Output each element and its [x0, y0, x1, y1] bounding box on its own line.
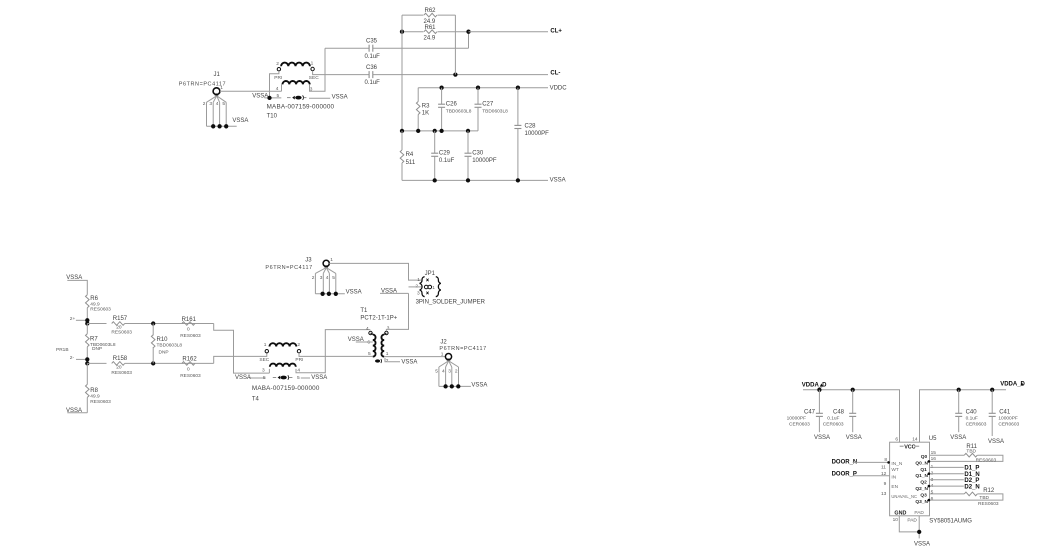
ground VSSA left of T10 — [252, 93, 281, 100]
svg-text:JP1: JP1 — [425, 271, 436, 277]
svg-text:C28: C28 — [525, 124, 537, 130]
svg-text:CER0603: CER0603 — [966, 422, 987, 428]
wire DOOR_P input — [832, 472, 890, 478]
resistor R4 — [400, 131, 416, 181]
wire DOOR_N input — [832, 460, 890, 466]
T4 part label — [252, 385, 320, 403]
net VDDA_D flag left — [802, 382, 827, 388]
svg-text:P6TRN=PC4117: P6TRN=PC4117 — [439, 346, 486, 352]
svg-text:RES0603: RES0603 — [180, 333, 201, 339]
svg-text:4: 4 — [276, 86, 279, 92]
svg-text:D1_P: D1_P — [964, 466, 979, 472]
svg-text:CL-: CL- — [550, 70, 560, 76]
svg-text:4: 4 — [366, 326, 369, 332]
ground VSSA at J1 — [207, 118, 249, 129]
svg-text:DNP: DNP — [159, 349, 169, 355]
svg-text:10000PF: 10000PF — [998, 415, 1018, 421]
port P label — [56, 347, 69, 353]
svg-text:R7: R7 — [90, 337, 98, 343]
svg-text:IN_N: IN_N — [891, 461, 902, 467]
svg-text:C36: C36 — [366, 65, 378, 71]
svg-text:Q0: Q0 — [921, 454, 928, 460]
svg-text:2: 2 — [312, 275, 315, 281]
wire T10 pin4 leg — [281, 84, 283, 91]
svg-text:Q2: Q2 — [920, 480, 927, 486]
ground VSSA left of T4 — [235, 375, 266, 381]
T4 core shield symbol — [273, 375, 293, 379]
net VSSA flag top left — [66, 275, 87, 295]
svg-text:5: 5 — [263, 375, 266, 381]
svg-text:D2_P: D2_P — [964, 478, 979, 484]
wire node A vertical — [401, 15, 403, 131]
wire VDDA rail left — [803, 388, 900, 443]
svg-text:Q2_N: Q2_N — [915, 486, 928, 492]
svg-text:Q0_N: Q0_N — [915, 461, 928, 467]
svg-text:2: 2 — [386, 358, 389, 364]
svg-text:SEC: SEC — [259, 357, 269, 363]
resistor R12 loop pins 5-6 — [928, 488, 1003, 507]
svg-text:VSSA: VSSA — [381, 288, 397, 294]
wire CL- line — [373, 72, 548, 76]
svg-text:VSSA: VSSA — [252, 94, 268, 100]
connector J1 — [179, 72, 226, 126]
svg-text:2: 2 — [297, 342, 300, 348]
svg-text:C47: C47 — [804, 410, 816, 416]
svg-text:C40: C40 — [966, 410, 978, 416]
svg-text:R6: R6 — [90, 296, 98, 302]
choke T10 — [274, 61, 319, 93]
svg-text:5: 5 — [435, 368, 438, 374]
svg-text:RES0603: RES0603 — [111, 330, 132, 336]
wire T10 pin2 to ground — [270, 71, 279, 98]
wire Q1 to D1_P — [930, 466, 980, 472]
port 2- stub — [70, 355, 90, 362]
T10 core shield symbol — [287, 95, 306, 99]
wire T10 pin1 to CL- line — [313, 71, 370, 75]
svg-text:5: 5 — [222, 101, 225, 107]
svg-text:C48: C48 — [833, 410, 845, 416]
svg-text:5: 5 — [277, 93, 280, 99]
capacitor C41 — [989, 390, 1020, 436]
svg-text:P6TRN=PC4117: P6TRN=PC4117 — [179, 82, 226, 88]
net VDDA_D flag right — [1000, 381, 1025, 387]
svg-text:R8: R8 — [90, 388, 98, 394]
capacitor C27 — [475, 88, 509, 131]
ground VSSA under U5 — [914, 542, 930, 548]
svg-text:12: 12 — [881, 471, 887, 477]
jumper JP1 — [415, 271, 440, 297]
svg-text:10000PF: 10000PF — [472, 158, 497, 164]
svg-text:UNAVAIL_NC: UNAVAIL_NC — [891, 494, 917, 499]
svg-text:1: 1 — [417, 277, 420, 283]
capacitor C28 — [514, 88, 549, 181]
wire C35 to CL+ node — [468, 32, 470, 49]
connector J2 — [435, 339, 486, 386]
resistor R10 — [151, 321, 182, 365]
svg-text:R161: R161 — [182, 317, 197, 323]
svg-text:5: 5 — [368, 351, 371, 357]
wire Q2_N to D2_N — [928, 484, 980, 490]
svg-text:VSSA: VSSA — [348, 337, 364, 343]
svg-text:2: 2 — [203, 101, 206, 107]
svg-text:20: 20 — [116, 365, 122, 371]
svg-text:MABA-007159-000000: MABA-007159-000000 — [267, 104, 335, 111]
svg-text:SY58051AUMG: SY58051AUMG — [929, 518, 972, 524]
svg-text:3: 3 — [448, 368, 451, 374]
svg-text:C35: C35 — [366, 38, 378, 44]
svg-text:2+: 2+ — [70, 316, 76, 322]
svg-text:4: 4 — [326, 275, 329, 281]
svg-text:10000PF: 10000PF — [525, 131, 550, 137]
resistor R161 — [180, 317, 201, 339]
svg-text:0: 0 — [187, 366, 190, 372]
resistor R6 — [86, 295, 112, 321]
U5 part label — [929, 518, 972, 524]
svg-text:T10: T10 — [267, 114, 278, 120]
wire T1 pin3 to JP1 vertical — [386, 293, 408, 331]
svg-text:PR1B: PR1B — [56, 347, 69, 353]
wire R161 to T4 pin3 — [214, 324, 270, 374]
svg-text:511: 511 — [406, 160, 416, 166]
svg-text:Q3: Q3 — [920, 493, 927, 499]
svg-text:TBD0603L8: TBD0603L8 — [446, 109, 472, 115]
svg-text:Q1_N: Q1_N — [915, 473, 928, 479]
transformer T1 — [360, 308, 397, 364]
svg-text:MABA-007159-000000: MABA-007159-000000 — [252, 385, 320, 392]
svg-text:3PIN_SOLDER_JUMPER: 3PIN_SOLDER_JUMPER — [416, 300, 486, 306]
op-amp U5 buffer IC — [881, 436, 937, 523]
svg-text:C26: C26 — [446, 101, 458, 107]
wire Q2 to D2_P — [930, 478, 980, 484]
svg-text:WT: WT — [891, 467, 899, 473]
svg-text:DOOR_P: DOOR_P — [832, 472, 857, 478]
svg-text:RES0603: RES0603 — [90, 307, 111, 313]
svg-text:R62: R62 — [425, 8, 437, 14]
svg-text:TBD0603L8: TBD0603L8 — [482, 109, 508, 115]
wire R162 to T4 pin1 — [214, 353, 267, 363]
svg-text:11: 11 — [881, 465, 886, 471]
svg-text:VSSA: VSSA — [346, 290, 362, 296]
svg-text:C30: C30 — [472, 150, 484, 156]
wire J3 pin1 to JP1 pin1 — [329, 263, 421, 280]
svg-text:2-: 2- — [70, 355, 75, 361]
svg-text:VSSA: VSSA — [814, 435, 830, 441]
capacitor C26 — [438, 88, 472, 131]
svg-text:T4: T4 — [252, 397, 260, 403]
wire Q1_N to D1_N — [928, 472, 980, 478]
svg-text:1K: 1K — [422, 111, 429, 117]
svg-text:VSSA: VSSA — [232, 118, 248, 124]
svg-text:EN: EN — [891, 484, 898, 490]
ground VSSA at J3 — [315, 290, 361, 296]
svg-text:Q3_N: Q3_N — [915, 499, 928, 505]
svg-text:6: 6 — [931, 496, 934, 502]
svg-text:10: 10 — [893, 517, 899, 523]
wire PAD pin to ground — [917, 516, 921, 539]
svg-text:VSSA: VSSA — [846, 435, 862, 441]
svg-text:TBD: TBD — [979, 495, 989, 501]
svg-text:TBD: TBD — [966, 448, 976, 454]
port 2+ stub — [70, 316, 90, 323]
wire J1 pin1 to T10 pin4 — [220, 90, 282, 92]
svg-text:J2: J2 — [440, 339, 447, 345]
svg-text:R61: R61 — [425, 25, 437, 31]
ground VSSA under C47 — [814, 435, 830, 441]
wire JP1 pin2 — [409, 286, 422, 288]
ground VSSA under C40 — [950, 435, 966, 441]
svg-text:VSSA: VSSA — [550, 178, 566, 184]
svg-text:R162: R162 — [182, 356, 197, 362]
wire T4 pin2 to T1 — [299, 353, 373, 357]
svg-text:C27: C27 — [482, 101, 494, 107]
svg-text:2: 2 — [455, 368, 458, 374]
svg-text:VSSA: VSSA — [401, 360, 417, 366]
svg-text:0.1uF: 0.1uF — [439, 158, 455, 164]
svg-text:3: 3 — [320, 275, 323, 281]
svg-text:5: 5 — [931, 489, 934, 495]
svg-text:3: 3 — [262, 367, 265, 373]
svg-text:J3: J3 — [305, 258, 312, 264]
resistor R162 — [180, 356, 201, 379]
net VSSA flag bottom left — [66, 408, 87, 414]
svg-text:VDDC: VDDC — [550, 86, 568, 92]
svg-text:4: 4 — [442, 368, 445, 374]
svg-text:0.1uF: 0.1uF — [365, 54, 381, 60]
svg-text:J1: J1 — [214, 72, 221, 78]
svg-text:R157: R157 — [113, 316, 128, 322]
svg-text:VSSA: VSSA — [332, 94, 348, 100]
net VDDC rail — [418, 86, 567, 92]
svg-text:RES0603: RES0603 — [180, 373, 201, 379]
wire T4 pin4 to T1 pin4 — [296, 330, 370, 373]
svg-text:RES0603: RES0603 — [90, 399, 111, 405]
svg-text:CER0603: CER0603 — [789, 422, 810, 428]
svg-text:2: 2 — [276, 61, 279, 67]
svg-text:T1: T1 — [360, 308, 368, 314]
svg-text:D2_N: D2_N — [964, 484, 979, 490]
svg-text:C41: C41 — [999, 410, 1011, 416]
wire mid rail — [400, 129, 478, 133]
capacitor C35 — [325, 38, 469, 59]
wire VDDA rail right — [920, 388, 1007, 443]
svg-text:1: 1 — [441, 351, 444, 357]
svg-text:13: 13 — [881, 491, 887, 497]
ground VSSA right of T4 — [297, 375, 327, 381]
svg-text:1: 1 — [330, 257, 333, 263]
capacitor C36 — [365, 65, 381, 86]
resistor R62 — [402, 8, 455, 25]
node CL- — [550, 70, 560, 76]
svg-text:0.1uF: 0.1uF — [827, 415, 839, 421]
svg-text:PCT2-1T-1P+: PCT2-1T-1P+ — [360, 316, 397, 322]
ground VSSA under C41 — [988, 439, 1004, 445]
svg-text:VSSA: VSSA — [235, 375, 251, 381]
svg-text:U5: U5 — [929, 436, 937, 442]
wire T1 pin5 bottom — [372, 355, 374, 357]
svg-text:CL+: CL+ — [550, 29, 562, 35]
svg-text:P6TRN=PC4117: P6TRN=PC4117 — [265, 265, 312, 271]
svg-text:6: 6 — [895, 436, 898, 442]
svg-text:C29: C29 — [439, 150, 451, 156]
svg-text:3: 3 — [209, 101, 212, 107]
JP1 part label — [416, 300, 486, 306]
svg-text:GND: GND — [894, 511, 906, 517]
svg-text:3: 3 — [417, 291, 420, 297]
svg-text:R158: R158 — [113, 356, 128, 362]
svg-text:DNP: DNP — [92, 346, 102, 352]
svg-text:0: 0 — [187, 326, 190, 332]
net VSSA stub at JP1 — [380, 288, 409, 294]
T1 core symbol — [375, 359, 382, 363]
svg-text:IN: IN — [891, 474, 896, 480]
capacitor C47 — [787, 390, 823, 432]
capacitor C40 — [955, 390, 987, 432]
svg-text:RES0603: RES0603 — [976, 457, 997, 463]
resistor R61 — [400, 25, 471, 42]
wire T4 pin3 leg — [268, 369, 270, 373]
ground VSSA right of T10 — [309, 94, 348, 100]
svg-text:0.1uF: 0.1uF — [365, 80, 381, 86]
ground VSSA under C48 — [846, 435, 862, 441]
svg-text:CER0603: CER0603 — [823, 422, 844, 428]
svg-text:24.9: 24.9 — [424, 35, 436, 41]
resistor R3 — [416, 88, 430, 131]
svg-text:1: 1 — [264, 342, 267, 348]
ground VSSA at J2 — [439, 382, 488, 388]
capacitor C29 — [431, 131, 454, 181]
resistor R158 — [87, 356, 213, 376]
svg-text:R10: R10 — [157, 337, 169, 343]
wire CL+ line — [469, 31, 549, 33]
svg-text:PRI: PRI — [295, 357, 303, 363]
svg-text:R3: R3 — [422, 103, 430, 109]
svg-text:4: 4 — [216, 101, 219, 107]
resistor R7 — [85, 321, 116, 359]
svg-text:PAD: PAD — [907, 517, 917, 523]
svg-text:1: 1 — [432, 285, 435, 291]
wire T1 pin6 center tap VSSA — [348, 337, 373, 343]
wire T1 pin1 to J2 — [384, 356, 445, 358]
svg-text:VSSA: VSSA — [66, 408, 82, 414]
capacitor C48 — [823, 390, 856, 432]
svg-text:1: 1 — [220, 85, 223, 91]
connector J3 — [265, 257, 335, 294]
wire GND pin to ground — [899, 516, 919, 532]
capacitor C30 — [465, 131, 497, 181]
svg-text:R12: R12 — [983, 488, 995, 494]
svg-text:VSSA: VSSA — [311, 375, 327, 381]
svg-text:14: 14 — [912, 437, 918, 443]
svg-text:5: 5 — [297, 375, 300, 381]
svg-text:VDDA_D: VDDA_D — [802, 382, 827, 388]
svg-text:1: 1 — [311, 61, 314, 67]
net VSSA rail top circuit — [402, 178, 566, 184]
wire T1 pin2 VSSA stub — [385, 358, 417, 366]
svg-text:49.9: 49.9 — [90, 394, 100, 400]
resistor R11 loop pins 15-16 — [928, 444, 1003, 463]
svg-text:TBD0603L8: TBD0603L8 — [157, 342, 183, 348]
svg-text:PAD: PAD — [914, 510, 924, 516]
svg-text:PRI: PRI — [274, 75, 282, 81]
resistor R157 — [87, 316, 213, 336]
svg-text:0.1uF: 0.1uF — [966, 415, 978, 421]
svg-text:10000PF: 10000PF — [787, 415, 807, 421]
svg-text:VCC: VCC — [904, 444, 915, 450]
wire T10 pin3 to C35 — [310, 48, 326, 91]
svg-text:9: 9 — [884, 481, 887, 487]
svg-text:3: 3 — [387, 326, 390, 332]
svg-text:5: 5 — [332, 275, 335, 281]
resistor R8 — [85, 361, 111, 413]
node CL+ — [550, 29, 562, 35]
svg-text:VSSA: VSSA — [950, 435, 966, 441]
svg-text:VSSA: VSSA — [914, 542, 930, 548]
T10 part label — [267, 104, 335, 120]
svg-text:VSSA: VSSA — [471, 382, 487, 388]
wire R62 right leg to CL- — [454, 15, 456, 75]
svg-text:RES0603: RES0603 — [978, 501, 999, 507]
svg-text:SEC: SEC — [309, 75, 319, 81]
choke T4 — [259, 342, 303, 373]
svg-text:Q1: Q1 — [920, 467, 927, 473]
svg-text:CER0603: CER0603 — [998, 422, 1019, 428]
svg-text:R4: R4 — [406, 152, 414, 158]
svg-text:VSSA: VSSA — [988, 439, 1004, 445]
svg-text:RES0603: RES0603 — [111, 370, 132, 376]
